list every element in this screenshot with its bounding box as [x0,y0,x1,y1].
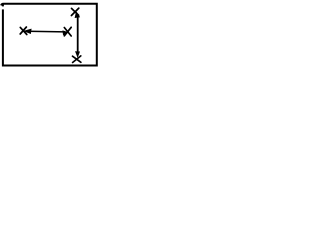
x marker top (vertical arrow start) [71,8,78,15]
horizontal double arrow [24,29,68,35]
x marker left (horizontal arrow start) [20,27,27,35]
border frame gap (left edge dash) [1,6,4,9]
bottom arrowhead [76,52,80,57]
top arrowhead [75,12,80,18]
border frame [1,4,97,66]
left arrowhead [24,29,31,34]
right arrowhead [63,31,68,35]
x marker right (horizontal arrow end) [64,27,71,36]
x marker bottom (vertical arrow end) [73,56,81,63]
vertical double arrow [75,12,80,57]
